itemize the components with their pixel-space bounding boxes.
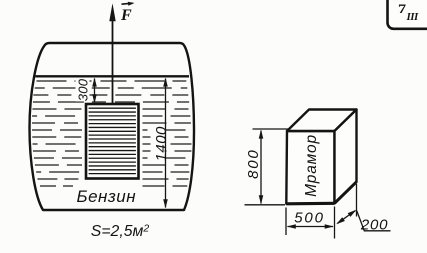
svg-text:Бензин: Бензин xyxy=(77,187,137,206)
svg-text:7: 7 xyxy=(398,3,406,17)
svg-text:S=2,5м2: S=2,5м2 xyxy=(91,222,150,240)
svg-text:Мрамор: Мрамор xyxy=(303,134,320,197)
svg-text:1400: 1400 xyxy=(153,126,170,162)
svg-text:800: 800 xyxy=(245,148,262,178)
svg-text:III: III xyxy=(406,11,420,23)
svg-text:300: 300 xyxy=(76,78,91,101)
svg-text:200: 200 xyxy=(360,216,388,233)
svg-text:F: F xyxy=(120,7,132,24)
svg-text:500: 500 xyxy=(294,210,324,227)
